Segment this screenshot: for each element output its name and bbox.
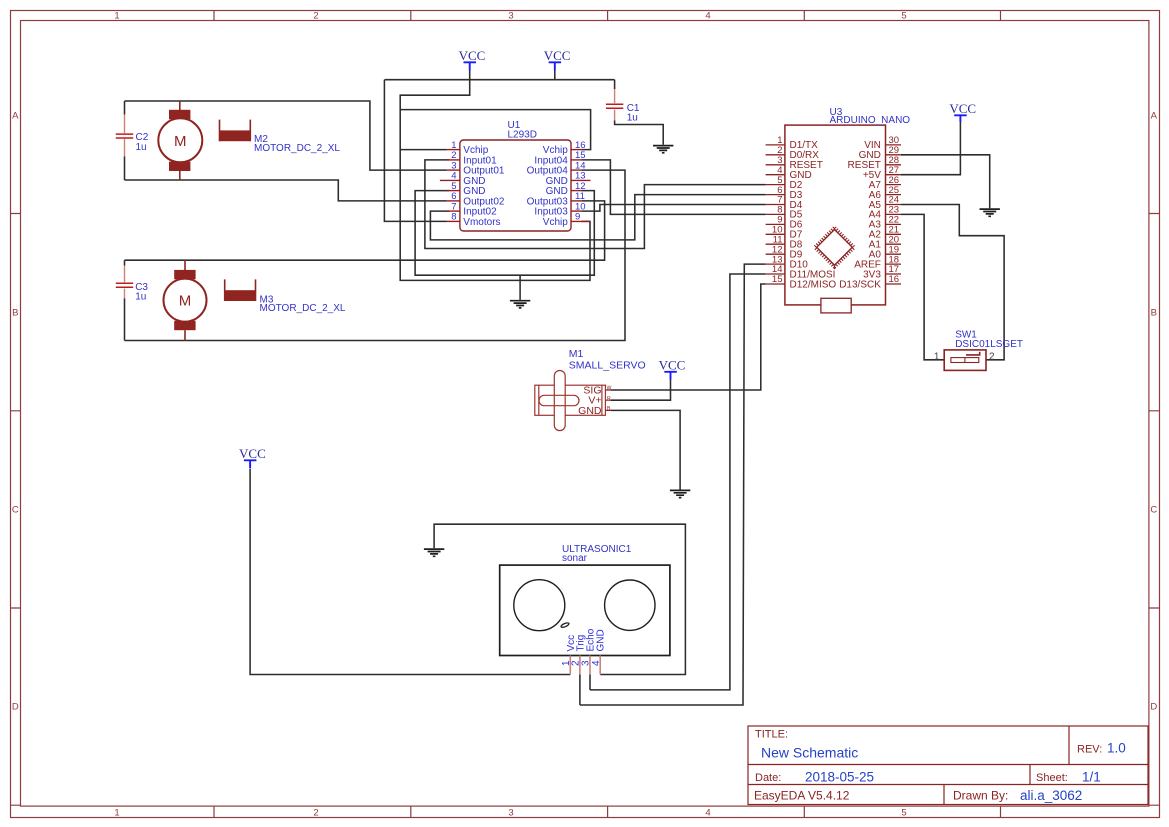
U1 left pin stubs pins 1-8 xyxy=(440,150,460,222)
svg-text:Sheet:: Sheet: xyxy=(1036,772,1068,784)
svg-text:sonar: sonar xyxy=(562,553,588,564)
svg-text:C: C xyxy=(1150,504,1157,515)
svg-text:D: D xyxy=(1150,701,1157,712)
U3 MCU diamond chip glyph xyxy=(815,228,854,267)
U1 right pin numbers 16-9 xyxy=(575,140,586,223)
wire M2 bottom terminal to U1 pin6 Output02 xyxy=(125,180,447,201)
svg-text:MOTOR_DC_2_XL: MOTOR_DC_2_XL xyxy=(254,143,340,154)
svg-text:VCC: VCC xyxy=(239,446,266,461)
wire ground stub below U1 xyxy=(519,275,521,300)
svg-text:VCC: VCC xyxy=(544,48,571,63)
svg-text:VCC: VCC xyxy=(949,101,976,116)
wire net VCC1 branch to U1 pin1 Vchip xyxy=(400,149,446,151)
label C3 value 1u xyxy=(135,282,148,303)
label U3 ARDUINO_NANO xyxy=(830,107,911,126)
svg-text:TITLE:: TITLE: xyxy=(755,729,788,741)
svg-text:W: W xyxy=(607,385,612,391)
U3 right pin numbers 30-16 xyxy=(889,135,900,285)
wire sonar pin4 GND to ground xyxy=(434,524,685,674)
svg-text:4: 4 xyxy=(591,660,602,666)
svg-text:GND: GND xyxy=(596,629,607,651)
wire U3 pin29 GND to ground xyxy=(901,155,990,208)
svg-text:B: B xyxy=(607,406,611,412)
wire VCC2 symbol stub xyxy=(554,70,556,80)
svg-text:SMALL_SERVO: SMALL_SERVO xyxy=(569,359,646,371)
U3 left pin names xyxy=(790,140,837,290)
sonar crystal ellipse xyxy=(560,622,569,628)
wire servo GND to ground xyxy=(611,410,681,489)
power VCC symbol net VCC above U1 left xyxy=(459,48,486,71)
power VCC symbol net VCC above U3 right xyxy=(949,101,976,122)
svg-text:1u: 1u xyxy=(627,113,638,124)
wire M3 bottom terminal to U1 pin14 Output04 xyxy=(125,170,626,340)
U1 left pin names xyxy=(463,145,505,228)
U3 right pin stubs pins 30-16 xyxy=(886,145,902,284)
label U1 L293D xyxy=(508,120,537,141)
capacitor C3 xyxy=(116,266,133,299)
svg-text:1: 1 xyxy=(114,11,119,22)
power VCC symbol net VCC left rail for sonar xyxy=(239,446,266,469)
wire M3 top terminal to U1 pin11 Output03 xyxy=(125,201,605,260)
ground symbol right of U3 xyxy=(980,209,1000,216)
label C1 value 1u xyxy=(627,103,640,124)
svg-text:1/1: 1/1 xyxy=(1082,770,1101,785)
wire net D12 SIG from U3 pin15 to servo SIG xyxy=(611,284,766,390)
op-amp U1 L293D body xyxy=(460,140,571,231)
ground symbol below servo M1 xyxy=(670,490,690,497)
svg-text:D: D xyxy=(12,701,19,712)
label SW1 DSIC01LSGET xyxy=(955,329,1023,350)
svg-text:EasyEDA V5.4.12: EasyEDA V5.4.12 xyxy=(754,789,850,803)
sonar ULTRASONIC1 body xyxy=(500,565,670,655)
svg-text:1: 1 xyxy=(114,808,119,819)
svg-text:2: 2 xyxy=(313,11,318,22)
svg-text:A: A xyxy=(12,110,19,121)
svg-text:VCC: VCC xyxy=(459,48,486,63)
svg-text:3: 3 xyxy=(508,11,513,22)
servo M1 SMALL_SERVO body xyxy=(535,371,606,431)
wire net D11 Echo from U3 pin14 to sonar pin3 xyxy=(590,274,766,690)
svg-text:D12/MISO: D12/MISO xyxy=(790,279,837,290)
sonar pin numbers 1-4 rotated xyxy=(561,660,602,666)
svg-text:1u: 1u xyxy=(136,142,147,153)
svg-text:16: 16 xyxy=(889,274,900,285)
wire M2 left lower segment xyxy=(124,157,126,181)
svg-text:GND: GND xyxy=(578,405,602,417)
svg-text:2: 2 xyxy=(313,808,318,819)
svg-text:REV:: REV: xyxy=(1077,744,1102,756)
switch SW1 DSIC01LSGET body xyxy=(944,350,986,371)
motor M3 MOTOR_DC_2_XL xyxy=(164,260,256,340)
wire C1 top lead xyxy=(614,80,616,89)
svg-text:M: M xyxy=(174,133,187,150)
svg-text:B: B xyxy=(1151,307,1157,318)
svg-text:Date:: Date: xyxy=(755,772,781,784)
svg-text:Vmotors: Vmotors xyxy=(463,217,500,228)
sonar right transducer circle xyxy=(605,580,655,630)
wire M3 left upper segment xyxy=(124,260,126,265)
svg-text:1: 1 xyxy=(934,351,940,362)
wire servo V+ to VCC symbol xyxy=(611,379,671,401)
wire net D10 Trig from U3 pin13 to sonar pin2 xyxy=(580,264,766,705)
servo M1 pin names xyxy=(578,384,602,417)
svg-text:9: 9 xyxy=(575,212,580,223)
label M2 MOTOR_DC_2_XL xyxy=(254,134,340,154)
svg-text:4: 4 xyxy=(705,11,710,22)
wire M3 left lower segment xyxy=(124,298,126,340)
sonar pin stubs 1-4 xyxy=(570,656,600,675)
power VCC symbol net VCC at servo M1 xyxy=(659,357,686,379)
IC U3 ARDUINO_NANO body xyxy=(785,125,886,305)
capacitor C2 xyxy=(116,115,133,157)
label M3 MOTOR_DC_2_XL xyxy=(260,294,346,314)
svg-text:5: 5 xyxy=(901,808,906,819)
svg-text:1.0: 1.0 xyxy=(1107,741,1126,756)
svg-text:C: C xyxy=(12,504,19,515)
svg-text:2018-05-25: 2018-05-25 xyxy=(805,770,874,785)
wire net VCC2 horizontal bus xyxy=(384,79,614,81)
U3 USB connector rectangle xyxy=(821,298,851,313)
svg-text:4: 4 xyxy=(705,808,710,819)
wire net D2 from U1 pin2 Input01 to U3 pin5 xyxy=(425,160,766,249)
wire net A4 from U3 pin23 to SW1 pin1 xyxy=(901,214,944,359)
svg-text:R: R xyxy=(607,396,611,402)
ground symbol below U1 xyxy=(510,301,530,308)
svg-text:MOTOR_DC_2_XL: MOTOR_DC_2_XL xyxy=(260,303,346,314)
U3 left pin numbers 1-15 xyxy=(772,135,783,285)
label M1 SMALL_SERVO xyxy=(569,348,646,371)
ground symbol below C1 xyxy=(653,146,673,153)
wire net D4 from U1 pin10 Input03 to U3 pin7 xyxy=(581,205,765,212)
power VCC symbol net VCC above U1 right xyxy=(544,48,571,71)
label C2 value 1u xyxy=(136,132,149,153)
U3 left pin stubs pins 1-15 xyxy=(766,145,785,284)
svg-text:Drawn By:: Drawn By: xyxy=(953,789,1008,803)
svg-text:DSIC01LSGET: DSIC01LSGET xyxy=(955,339,1023,350)
ground symbol left of sonar xyxy=(424,549,444,556)
sonar pin names Vcc Trig Echo GND rotated xyxy=(566,628,607,651)
wire net VCC1 branch U1 pin16 Vchip xyxy=(400,110,590,150)
svg-text:Vchip: Vchip xyxy=(543,217,568,228)
wire C1 bottom lead to ground xyxy=(615,121,664,145)
U3 right pin names xyxy=(839,140,881,290)
svg-text:B: B xyxy=(12,307,18,318)
sonar left transducer circle xyxy=(514,580,565,631)
servo M1 pin stubs SIG V+ GND xyxy=(605,390,610,410)
U1 right pin names xyxy=(527,145,569,228)
motor M2 MOTOR_DC_2_XL xyxy=(158,101,250,180)
capacitor C1 xyxy=(606,89,623,121)
wire M2 left upper segment xyxy=(124,101,126,115)
U1 right pin stubs pins 16-9 xyxy=(571,150,591,222)
svg-text:M: M xyxy=(179,293,192,310)
wire U1 GND bus pins 5 and 12 xyxy=(415,191,594,276)
wire net VCC left rail to sonar pin1 Vcc xyxy=(250,469,570,675)
svg-text:A: A xyxy=(1151,110,1158,121)
wire U3 pin27 +5V to VCC symbol xyxy=(901,121,960,175)
svg-text:VCC: VCC xyxy=(659,357,686,372)
wire sonar Trig stub riser xyxy=(579,675,581,706)
servo M1 pin letters W R B xyxy=(607,385,612,412)
wire net D3 from U1 pin7 Input02 to U3 pin6 xyxy=(430,195,765,240)
wire net VCC1 from VCC symbol to U1 pin9 Vchip xyxy=(400,70,590,280)
svg-text:New Schematic: New Schematic xyxy=(761,745,858,761)
svg-text:D13/SCK: D13/SCK xyxy=(839,279,881,290)
svg-text:1u: 1u xyxy=(135,292,146,303)
wire net VCC2 to U1 pin8 Vmotors xyxy=(384,80,446,222)
TITLE BLOCK xyxy=(748,726,1148,805)
svg-text:5: 5 xyxy=(901,11,906,22)
svg-text:3: 3 xyxy=(508,808,513,819)
svg-text:L293D: L293D xyxy=(508,130,537,141)
label ULTRASONIC1 sonar xyxy=(562,544,632,564)
svg-text:ali.a_3062: ali.a_3062 xyxy=(1020,788,1082,803)
svg-text:ARDUINO_NANO: ARDUINO_NANO xyxy=(830,115,911,126)
svg-text:M1: M1 xyxy=(569,348,584,360)
svg-text:8: 8 xyxy=(451,212,456,223)
svg-text:2: 2 xyxy=(989,351,995,362)
wire sonar Echo stub riser xyxy=(589,675,591,690)
svg-text:15: 15 xyxy=(772,274,783,285)
wire M2 top terminal to U1 pin3 Output01 xyxy=(125,101,447,170)
wire net A5 from U3 pin24 to SW1 pin2 xyxy=(901,205,1004,360)
wire net D5 from U1 pin15 Input04 to U3 pin8 xyxy=(581,160,765,215)
U1 left pin numbers 1-8 xyxy=(451,140,456,223)
